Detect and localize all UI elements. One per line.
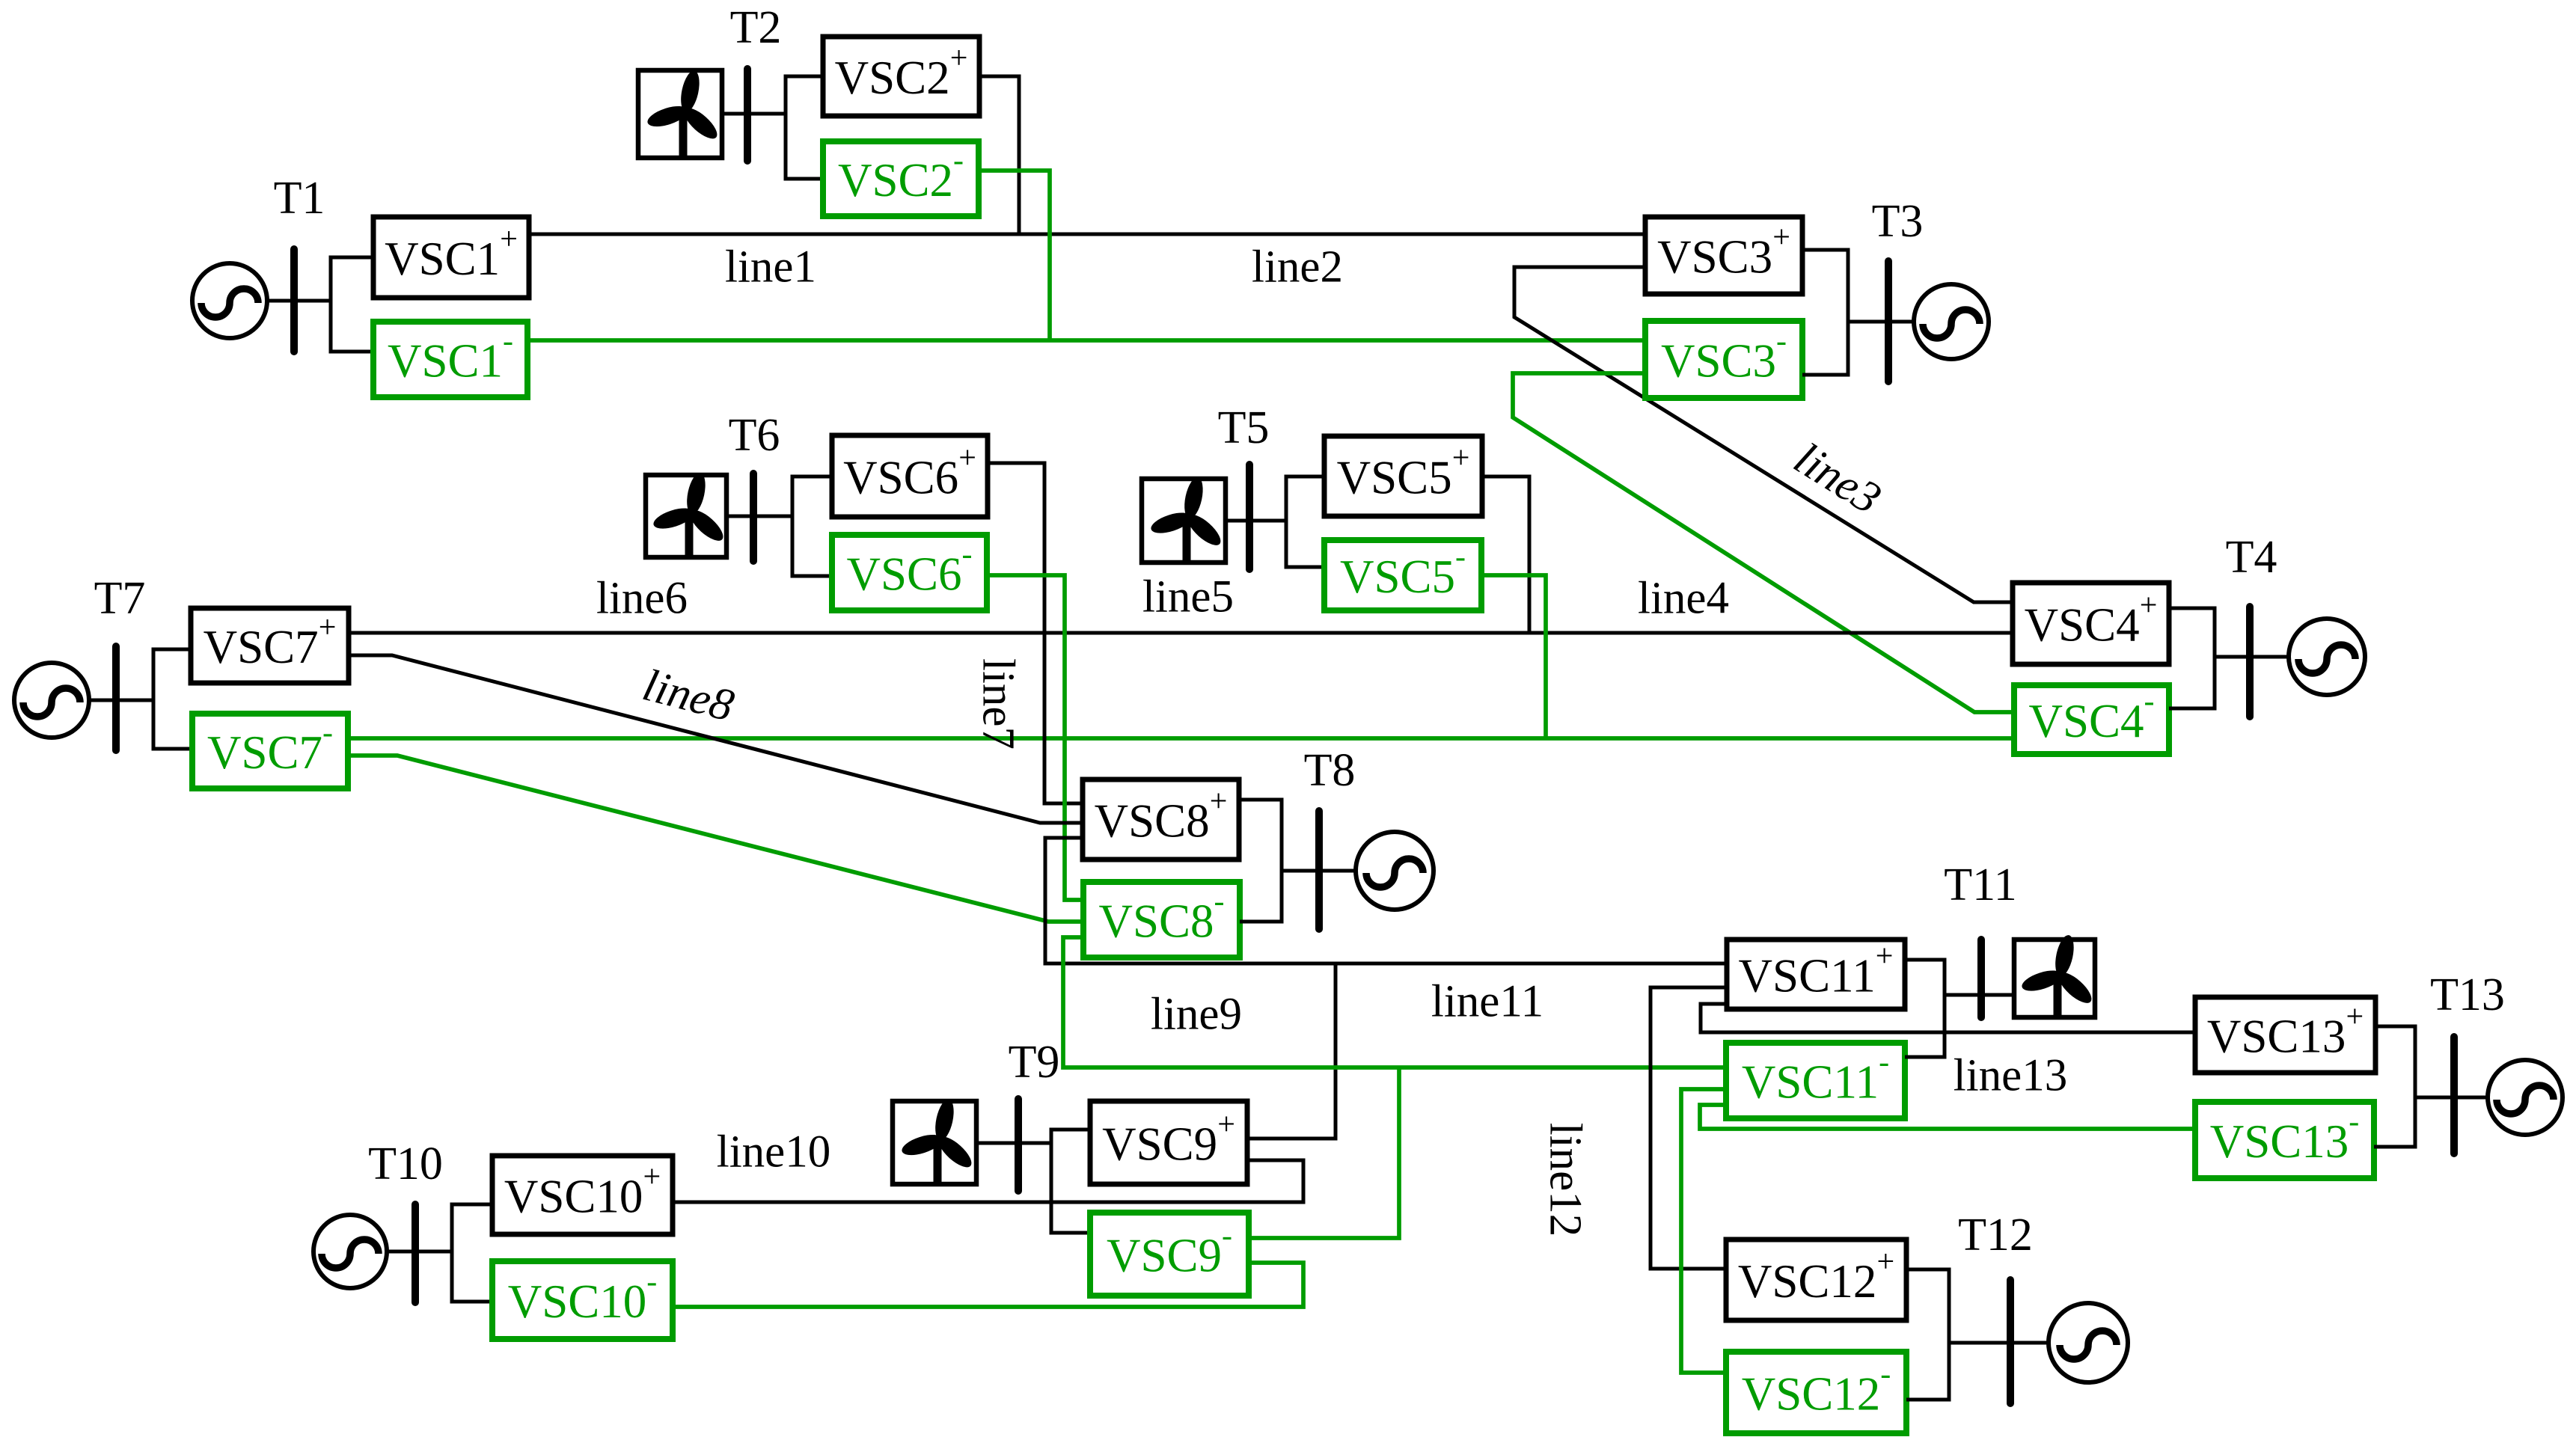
converter VSC13+ [2195,997,2375,1073]
converter VSC10+ [492,1156,673,1234]
svg-text:line5: line5 [1142,572,1234,622]
wire T5 turbine to junction [1226,519,1286,523]
AC source T8 [1356,832,1434,910]
wire T2 turbine to junction [722,112,786,116]
label T3 [1872,196,1924,247]
wire T12 to source [1949,1341,2049,1345]
svg-text:line12: line12 [1541,1123,1591,1237]
bus bar T9 [1015,1099,1022,1191]
label T5 [1218,402,1270,453]
svg-text:T10: T10 [368,1139,443,1189]
wire T10 junction [452,1204,492,1302]
wire line12 negative pole (VSC11- to VSC12-) [1681,1089,1726,1373]
label line9 [1151,990,1242,1040]
label line7 [973,658,1024,750]
svg-text:line10: line10 [717,1127,830,1177]
wind turbine T9 [893,1097,976,1184]
wire T11 to turbine [1945,993,2014,997]
label line4 [1638,574,1729,624]
wire line13 positive pole (VSC11+ to VSC13+) [1701,1004,2195,1032]
wire T9 junction [1051,1130,1090,1233]
wire VSC2+ to line1 junction [979,76,1019,234]
svg-text:T5: T5 [1218,402,1270,453]
converter VSC5- [1324,540,1481,610]
label T8 [1304,745,1356,796]
wind turbine T5 [1142,476,1226,563]
wire line9 positive drop to VSC9+ [1247,963,1336,1139]
bus bar T10 [412,1204,419,1302]
label T10 [368,1139,443,1189]
wire line3 positive pole (VSC3+ to VSC4+) [1514,267,2013,602]
wire T1 source to junction [267,299,331,303]
converter VSC9+ [1090,1101,1247,1184]
svg-text:line9: line9 [1151,990,1242,1040]
converter VSC7+ [191,608,349,683]
wire line8 positive pole (VSC7+ to VSC8+) [349,655,1083,823]
AC source T3 [1914,284,1989,359]
label line12 [1541,1123,1591,1237]
converter VSC4- [2014,684,2169,754]
wire T3 junction [1802,250,1848,375]
converter VSC2- [823,141,979,216]
label line6 [596,574,688,624]
label T1 [274,173,325,224]
svg-text:line1: line1 [725,242,816,292]
converter VSC7- [192,714,348,788]
label T4 [2226,532,2277,583]
label line10 [717,1127,830,1177]
wire line10 positive pole (VSC10+ to VSC9+) [673,1160,1303,1202]
converter VSC5+ [1324,436,1482,516]
bus bar T4 [2246,607,2254,717]
svg-text:line6: line6 [596,574,688,624]
converter VSC3+ [1645,217,1802,294]
bus bar T7 [112,646,120,750]
label T7 [94,573,146,624]
label T13 [2430,969,2505,1020]
bus bar T11 [1977,940,1985,1017]
bus bar T5 [1246,465,1253,569]
wire T6 junction [792,477,832,576]
converter VSC8- [1083,882,1240,958]
wire line1/line2 negative pole (VSC1- to VSC3-) [527,338,1645,343]
AC source T10 [313,1215,387,1288]
converter VSC12+ [1726,1240,1906,1320]
wire VSC2- to line1 junction [979,171,1050,340]
wire T5 junction [1286,477,1324,567]
wire T1 junction [331,257,373,352]
svg-text:T3: T3 [1872,196,1924,247]
label line8 [638,660,739,731]
wind turbine T6 [646,471,727,557]
svg-text:line13: line13 [1954,1051,2067,1101]
label line13 [1954,1051,2067,1101]
wire line7 positive pole (VSC6+ to VSC8+) [988,463,1083,803]
svg-text:T6: T6 [729,410,780,461]
converter VSC13- [2195,1102,2374,1178]
converter VSC4+ [2013,583,2169,664]
wire line8 negative pole (VSC7- to VSC8-) [348,756,1083,922]
wire T3 to source [1848,320,1914,324]
wire line7 negative pole (VSC6- to VSC8-) [987,575,1083,900]
svg-text:T9: T9 [1009,1037,1060,1088]
wire line13 negative pole (VSC11- to VSC13-) [1700,1105,2195,1129]
wire line9/line11 negative pole (VSC8- to VSC11-) [1063,937,1726,1067]
label line1 [725,242,816,292]
label T12 [1958,1210,2033,1260]
bus bar T8 [1315,811,1323,929]
AC source T1 [192,263,267,338]
wire T9 turbine to junction [976,1142,1051,1145]
wire line5 positive pole (VSC5+ to line4) [1482,477,1529,633]
wire line12 positive pole (VSC11+ to VSC12+) [1650,987,1727,1269]
wire T13 to source [2415,1096,2488,1100]
wire T7 source to junction [89,699,153,702]
wire line9 negative drop to VSC9- [1249,1067,1399,1238]
wind turbine T2 [638,69,722,158]
wire line9/line11 positive pole (VSC8+ to VSC11+) [1045,838,1727,963]
AC source T7 [14,663,89,738]
bus bar T12 [2007,1280,2014,1403]
wire line5 negative pole (VSC5- to line4) [1481,575,1546,738]
bus bar T3 [1885,261,1892,382]
bus bar T2 [744,69,751,161]
wire line3 negative pole (VSC3- to VSC4-) [1513,373,2014,712]
svg-text:T12: T12 [1958,1210,2033,1260]
svg-text:T4: T4 [2226,532,2277,583]
wire line1/line2 positive pole (VSC1+ to VSC3+) [529,233,1645,236]
wire T7 junction [153,649,192,749]
converter VSC6+ [832,435,988,517]
wire T4 to source [2215,655,2289,659]
svg-text:T11: T11 [1944,860,2017,910]
svg-text:T2: T2 [730,2,782,53]
bus bar T13 [2450,1037,2458,1153]
wire T10 source to junction [387,1250,452,1254]
wire T6 turbine to junction [726,515,792,518]
bus bar T6 [750,474,757,561]
AC source T13 [2488,1060,2563,1135]
converter VSC1+ [373,217,529,298]
label T11 [1944,860,2017,910]
AC source T4 [2289,619,2365,695]
converter VSC10- [492,1261,673,1339]
svg-text:line4: line4 [1638,574,1729,624]
converter VSC3- [1645,321,1802,398]
converter VSC8+ [1083,779,1239,860]
bus bar T1 [290,249,298,352]
label T2 [730,2,782,53]
label T9 [1009,1037,1060,1088]
wind turbine T11 [2014,934,2096,1017]
svg-text:T7: T7 [94,573,146,624]
converter VSC11- [1726,1043,1905,1118]
label line3 [1786,433,1890,524]
label line2 [1252,242,1343,292]
svg-text:line2: line2 [1252,242,1343,292]
AC source T12 [2049,1303,2128,1382]
wire line4/line6 positive pole (VSC7+ to VSC4+) [349,631,2013,635]
converter VSC9- [1090,1213,1249,1296]
svg-text:T1: T1 [274,173,325,224]
converter VSC6- [832,535,987,610]
label T6 [729,410,780,461]
wire T11 junction [1905,960,1945,1057]
converter VSC11+ [1727,940,1905,1010]
svg-text:T13: T13 [2430,969,2505,1020]
svg-text:line11: line11 [1431,977,1544,1027]
wire T12 junction [1906,1269,1949,1400]
converter VSC12- [1726,1352,1906,1433]
label line11 [1431,977,1544,1027]
svg-text:line7: line7 [973,658,1024,750]
converter VSC2+ [823,37,979,116]
svg-text:T8: T8 [1304,745,1356,796]
wire T4 junction [2169,608,2215,708]
wire T2 junction [786,76,823,179]
wire line10 negative pole (VSC10- to VSC9-) [673,1263,1303,1307]
wire T13 junction [2374,1026,2415,1147]
label line5 [1142,572,1234,622]
wire line4/line6 negative pole (VSC7- to VSC4-) [348,736,2014,741]
converter VSC1- [373,322,527,397]
wire T8 junction [1239,800,1282,922]
wire T8 to source [1282,869,1356,873]
